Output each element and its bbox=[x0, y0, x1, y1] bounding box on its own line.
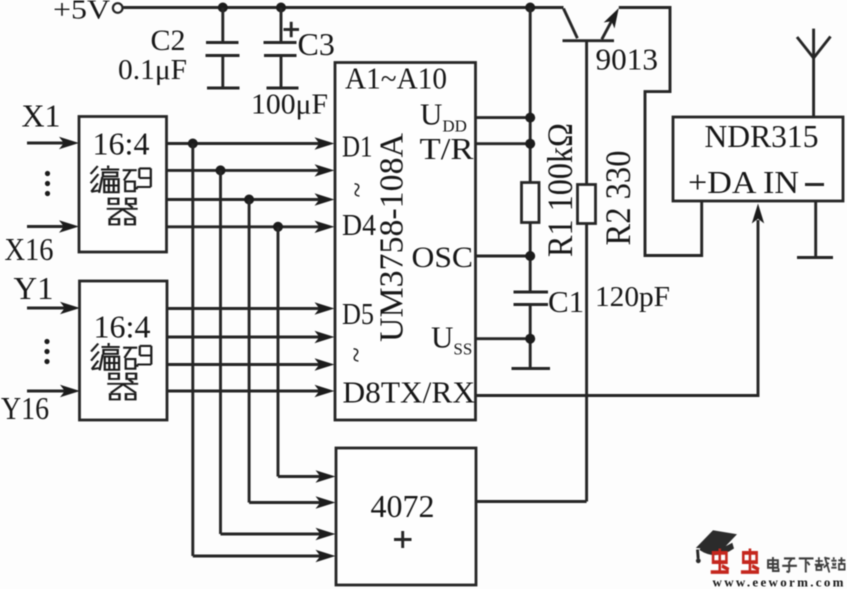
dots ellipsis Y bbox=[44, 339, 49, 364]
wire T/R to R1 column bbox=[476, 142, 531, 145]
watermark chongchong red bbox=[711, 549, 759, 573]
svg-text:T/R: T/R bbox=[420, 131, 474, 166]
dots ellipsis X bbox=[45, 171, 50, 196]
node OSC junction bbox=[525, 251, 535, 261]
wire TX/RX to DA IN bbox=[476, 220, 759, 396]
label bianma (Y encoder) bbox=[91, 343, 151, 370]
wire bus4 vertical bbox=[277, 227, 280, 477]
label bianma (X encoder) bbox=[91, 166, 151, 193]
wire Y row4 to D8 bbox=[167, 385, 335, 397]
wire bus1 vertical bbox=[191, 144, 194, 557]
svg-text:Y16: Y16 bbox=[1, 390, 49, 426]
capacitor C1 bbox=[514, 292, 549, 305]
wire R1 column lower bbox=[529, 222, 532, 292]
wire bus3 vertical bbox=[248, 200, 251, 503]
svg-text:0.1μF: 0.1μF bbox=[118, 55, 187, 86]
wire C2 bottom lead bbox=[221, 56, 224, 89]
label plus inside 4072 bbox=[394, 531, 412, 548]
ground NDR bar bbox=[797, 256, 833, 259]
transistor Q1 9013 bbox=[563, 8, 619, 41]
wire C3 top lead bbox=[280, 8, 283, 43]
svg-text:C1: C1 bbox=[548, 284, 584, 319]
svg-text:+DA IN: +DA IN bbox=[688, 165, 799, 200]
svg-text:D8TX/RX: D8TX/RX bbox=[343, 375, 476, 410]
wire X row3 to D3 bbox=[167, 193, 335, 205]
resistor R2 body bbox=[578, 185, 596, 224]
wire UDD to R1 column bbox=[476, 116, 531, 119]
wire 4072 output to R2 bbox=[476, 500, 587, 503]
node USS junction bbox=[525, 334, 535, 344]
ground C3 bottom bar bbox=[267, 87, 299, 90]
module NDR315 bbox=[673, 117, 843, 201]
node C2/rail junction bbox=[218, 3, 228, 13]
label qi (X encoder) bbox=[107, 199, 138, 225]
svg-text:~: ~ bbox=[340, 347, 371, 362]
wire OSC to R1 column bbox=[476, 255, 531, 258]
svg-text:NDR315: NDR315 bbox=[705, 118, 819, 154]
svg-text:120pF: 120pF bbox=[595, 282, 670, 313]
wire Y row2 to D6 bbox=[167, 331, 335, 343]
svg-text:16:4: 16:4 bbox=[93, 126, 150, 162]
svg-text:4072: 4072 bbox=[371, 488, 435, 524]
gate block 4072 bbox=[336, 448, 476, 585]
svg-text:X1: X1 bbox=[22, 98, 61, 134]
watermark graduation cap bbox=[696, 530, 737, 563]
svg-text:OSC: OSC bbox=[412, 241, 474, 274]
watermark site name bbox=[768, 557, 845, 573]
ground C2 bottom bar bbox=[207, 87, 240, 90]
node bus4 tap bbox=[273, 222, 283, 232]
node T/R junction bbox=[525, 139, 535, 149]
svg-text:16:4: 16:4 bbox=[94, 309, 151, 345]
svg-text:C2: C2 bbox=[151, 24, 186, 57]
wire 4072 input1 bbox=[278, 470, 336, 482]
ground C1 bottom bar bbox=[512, 367, 551, 370]
wire X1 input arrow bbox=[27, 137, 79, 149]
node R1/rail junction bbox=[525, 3, 535, 13]
wire Y1 input arrow bbox=[27, 302, 80, 314]
C3 polarity plus bbox=[284, 22, 300, 37]
svg-text:D1: D1 bbox=[342, 129, 373, 164]
svg-text:A1~A10: A1~A10 bbox=[345, 61, 447, 96]
wire R1 column upper bbox=[529, 8, 532, 184]
wire USS to C1 column bbox=[476, 337, 531, 340]
label minus pin bbox=[805, 183, 824, 186]
wire 4072 input2 bbox=[249, 496, 335, 508]
capacitor C3 bbox=[264, 43, 297, 56]
encoder block Y 16:4 bbox=[80, 281, 168, 420]
svg-text:C3: C3 bbox=[298, 26, 335, 62]
wire X16 input arrow bbox=[27, 220, 79, 232]
wire collector route top bbox=[619, 8, 702, 256]
wire NDR ground pin bbox=[814, 201, 817, 257]
svg-text:R2 330: R2 330 bbox=[598, 151, 638, 246]
arrow into DA IN bbox=[752, 204, 764, 224]
+5V terminal circle bbox=[113, 3, 123, 13]
svg-text:100μF: 100μF bbox=[251, 90, 328, 121]
wire R2 column upper (base lead) bbox=[585, 42, 588, 185]
svg-text:X16: X16 bbox=[5, 231, 54, 267]
svg-text:D4: D4 bbox=[342, 207, 376, 242]
encoder block X 16:4 bbox=[79, 117, 167, 253]
wire X row2 to D2 bbox=[167, 164, 335, 176]
wire C2 top lead bbox=[221, 8, 224, 43]
wire Y16 input arrow bbox=[27, 385, 80, 397]
antenna bbox=[797, 29, 831, 117]
wire 4072 input3 bbox=[221, 528, 336, 540]
wire bus2 vertical bbox=[219, 170, 222, 534]
node UDD junction bbox=[525, 113, 535, 123]
resistor R1 body bbox=[522, 183, 540, 223]
label qi (Y encoder) bbox=[107, 374, 138, 400]
node bus3 tap bbox=[244, 195, 254, 205]
wire C1 bottom lead bbox=[529, 305, 532, 369]
wire Y row3 to D7 bbox=[167, 358, 335, 370]
svg-text:9013: 9013 bbox=[596, 42, 659, 77]
IC U1 UM3758-108A bbox=[335, 63, 476, 421]
capacitor C2 bbox=[206, 43, 240, 56]
node bus1 tap bbox=[188, 139, 198, 149]
svg-text:UM3758-108A: UM3758-108A bbox=[374, 133, 411, 342]
wire 4072 input4 bbox=[193, 550, 336, 562]
svg-text:+5V: +5V bbox=[53, 0, 111, 25]
svg-text:~: ~ bbox=[341, 182, 372, 197]
svg-text:Y1: Y1 bbox=[14, 270, 54, 306]
svg-text:R1 100kΩ: R1 100kΩ bbox=[540, 123, 580, 257]
wire R2 column lower bbox=[585, 223, 588, 502]
svg-text:D5: D5 bbox=[342, 296, 374, 331]
wire C3 bottom lead bbox=[280, 56, 283, 89]
node bus2 tap bbox=[216, 165, 226, 175]
wire X row1 to D1 bbox=[167, 137, 335, 149]
wire X row4 to D4 bbox=[167, 221, 335, 233]
wire Y row1 to D5 bbox=[167, 302, 335, 314]
wire +5V rail bbox=[123, 6, 564, 9]
node C3/rail junction bbox=[276, 3, 286, 13]
svg-text:www.eeworm.com: www.eeworm.com bbox=[713, 575, 846, 589]
